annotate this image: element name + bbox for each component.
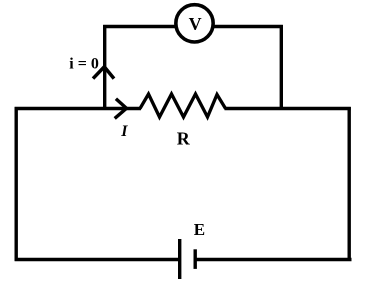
battery E short plate	[193, 249, 196, 269]
svg-text:i = 0: i = 0	[69, 55, 99, 72]
wire: right rail vertical	[348, 107, 351, 261]
wire: bottom wire left segment (to battery)	[15, 258, 179, 261]
svg-text:E: E	[194, 220, 205, 239]
voltmeter V	[176, 5, 213, 42]
wire: voltmeter top wire left segment	[103, 25, 177, 28]
wire: voltmeter branch right vertical	[280, 25, 283, 109]
wire: voltmeter top wire right segment	[212, 25, 283, 28]
wire: bottom wire right segment (battery to right rail)	[196, 258, 352, 261]
arrow: current I direction on main wire	[115, 99, 127, 119]
arrow: i = 0 direction up on voltmeter branch	[93, 67, 114, 79]
wire: left rail vertical	[15, 107, 18, 261]
battery E long plate	[178, 239, 181, 279]
svg-text:V: V	[189, 14, 202, 34]
wire: main horizontal wire left segment (node A to resistor)	[15, 107, 141, 110]
wire: voltmeter branch left vertical	[103, 25, 106, 109]
resistor R	[140, 94, 226, 117]
svg-text:I: I	[120, 123, 128, 140]
wire: main horizontal wire right segment (resistor to right rail)	[225, 107, 351, 110]
svg-text:R: R	[177, 129, 191, 149]
